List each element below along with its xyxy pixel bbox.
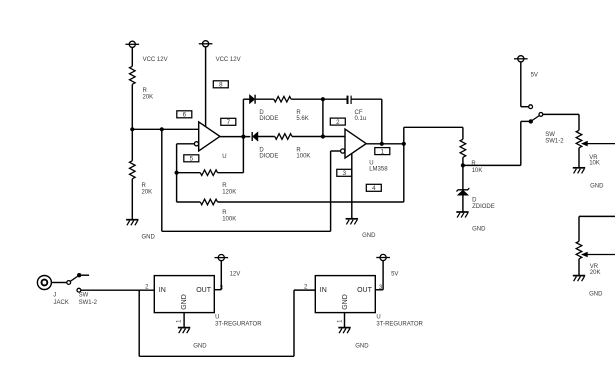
svg-text:D: D <box>472 198 477 204</box>
wire switch to regulator1 IN <box>81 289 155 291</box>
switch SW1-2 (jack) lever <box>70 276 77 281</box>
resistor R 20K (upper) <box>130 66 136 84</box>
resistor R 120K <box>200 170 217 176</box>
wire feedback node to R120K <box>177 172 201 174</box>
svg-text:U: U <box>369 161 373 167</box>
power 5V (switch) <box>518 56 524 62</box>
wire R10K to node <box>462 157 464 165</box>
svg-text:VCC 12V: VCC 12V <box>143 57 168 63</box>
pin 1 label box <box>375 148 390 155</box>
node op-amp1 output junction <box>241 135 245 139</box>
wire reg1 GND pin <box>183 313 185 328</box>
svg-text:R: R <box>471 161 476 167</box>
wire zener to ground <box>462 195 464 212</box>
svg-text:R: R <box>142 183 147 189</box>
svg-text:3: 3 <box>343 170 347 177</box>
resistor R 5.6K <box>274 96 291 102</box>
wire R120K to op-amp1 output <box>218 172 244 174</box>
ground (VR10K) <box>573 167 585 169</box>
svg-text:J: J <box>53 293 56 299</box>
svg-text:GND: GND <box>193 344 207 350</box>
svg-text:5.6K: 5.6K <box>296 116 308 122</box>
wire right edge to VR20K <box>579 215 615 217</box>
pin 6 label box <box>177 111 192 118</box>
svg-text:10K: 10K <box>472 168 483 174</box>
wire top node down to +input node <box>322 99 324 136</box>
wire bottom rail to op-amp2 -input riser <box>162 230 331 232</box>
wire reg2 GND pin <box>344 313 346 328</box>
ground (reg2) <box>338 327 350 329</box>
ground (VR20K) <box>573 275 585 277</box>
wire output node up to top branch <box>242 99 244 136</box>
node output branch junction <box>402 142 406 146</box>
wire top node to CF <box>323 98 347 100</box>
svg-text:U: U <box>222 154 226 160</box>
wire divider to op-amp1 +input <box>132 128 198 130</box>
svg-text:IN: IN <box>159 287 166 294</box>
svg-text:3T-REGURATOR: 3T-REGURATOR <box>376 322 423 328</box>
power VCC 12V (left) <box>129 41 135 47</box>
svg-text:R: R <box>222 183 227 189</box>
svg-text:120K: 120K <box>222 189 236 195</box>
zener diode D ZDIODE <box>457 188 470 191</box>
wire op-amp1 -input to feedback node <box>177 143 195 145</box>
variable resistor VR 20K <box>576 241 582 258</box>
svg-text:SW1-2: SW1-2 <box>545 139 564 145</box>
svg-text:5V: 5V <box>531 73 538 79</box>
svg-text:SW1-2: SW1-2 <box>79 300 98 306</box>
svg-text:GND: GND <box>589 291 603 297</box>
capacitor CF 0.1u <box>347 96 349 104</box>
ground (below R20K) <box>126 219 138 221</box>
wire VCC divider vertical <box>131 84 133 129</box>
regulator U 3T-REGURATOR (5V) body <box>315 276 375 313</box>
node feedback junction <box>175 171 179 175</box>
power VCC 12V (op-amp1 V+) <box>203 41 209 47</box>
svg-text:6: 6 <box>183 112 187 119</box>
svg-text:5: 5 <box>190 156 194 163</box>
svg-text:DIODE: DIODE <box>259 116 278 122</box>
svg-text:2: 2 <box>336 119 340 126</box>
wire rail up to regulator2 IN <box>293 290 295 356</box>
svg-text:7: 7 <box>227 119 231 126</box>
wire +input node down to bottom rail <box>161 129 163 231</box>
wire switch to VR10K <box>543 113 579 115</box>
wire R100K to op-amp2 output node <box>218 201 404 203</box>
ground (op-amp2 V-) <box>346 218 358 220</box>
svg-text:OUT: OUT <box>357 287 373 294</box>
svg-text:20K: 20K <box>142 190 153 196</box>
switch SW1-2 (jack) pole stub <box>81 274 89 276</box>
wire branch down to bottom rail <box>138 290 140 356</box>
connector J JACK <box>37 276 51 290</box>
pin 5 label box <box>184 155 199 162</box>
svg-text:GND: GND <box>181 294 188 310</box>
wire op-amp2 output <box>366 143 404 145</box>
variable resistor VR 10K <box>576 130 582 148</box>
pin 8 label box <box>213 81 228 88</box>
power 5V (reg2) <box>380 254 386 260</box>
node R10K junction <box>461 163 465 167</box>
wire to R100K feedback <box>177 201 201 203</box>
svg-text:R: R <box>222 210 227 216</box>
svg-text:12V: 12V <box>230 271 241 277</box>
svg-text:1: 1 <box>381 148 385 155</box>
node op-amp1 +input junction <box>160 127 164 131</box>
svg-text:GND: GND <box>355 344 369 350</box>
wire reg1 OUT to 12V <box>214 289 221 291</box>
op-amp U1b LM358 triangle <box>345 129 366 158</box>
wire R10K node to switch <box>463 164 521 166</box>
pin 2 label box <box>330 118 345 125</box>
op-amp U1b inverting bubble <box>341 149 345 153</box>
svg-text:LM358: LM358 <box>369 167 388 173</box>
svg-text:GND: GND <box>142 235 156 241</box>
switch SW1-2 (jack) contact b <box>77 288 81 292</box>
wire bottom diode to R100K <box>258 136 275 138</box>
svg-text:4: 4 <box>372 185 376 192</box>
VR10K wiper arrow <box>587 143 615 145</box>
svg-text:GND: GND <box>590 184 604 190</box>
pin 4 label box <box>366 184 381 191</box>
wire VR20K to ground <box>578 259 580 276</box>
op-amp U1a inverting bubble <box>194 142 198 146</box>
pin 7 label box <box>221 118 236 125</box>
svg-text:OUT: OUT <box>196 287 212 294</box>
resistor R 100K (bottom branch) <box>275 134 292 140</box>
switch SW1-2 (jack) contact a <box>67 281 71 285</box>
switch SW1-2 lever <box>531 116 539 122</box>
wire reg2 OUT to 5V <box>375 289 383 291</box>
ground (reg1) <box>178 327 190 329</box>
svg-text:8: 8 <box>219 82 223 89</box>
switch SW1-2 pole <box>529 119 533 123</box>
svg-text:10K: 10K <box>589 161 600 167</box>
wire pole to riser <box>521 120 530 122</box>
wire divider to lower R <box>131 129 133 161</box>
svg-text:20K: 20K <box>143 95 154 101</box>
svg-text:0.1u: 0.1u <box>355 116 367 122</box>
svg-text:U: U <box>215 315 219 321</box>
wire jack to switch <box>51 282 67 284</box>
svg-text:5V: 5V <box>391 272 398 278</box>
op-amp U1a triangle <box>199 122 220 151</box>
diode D DIODE (bottom, cathode left) <box>251 132 253 141</box>
svg-text:100K: 100K <box>296 154 310 160</box>
svg-text:CF: CF <box>355 110 363 116</box>
switch SW1-2 contact b <box>539 113 543 117</box>
svg-text:R: R <box>143 88 148 94</box>
diode D DIODE (top, anode left) <box>250 95 255 103</box>
svg-text:JACK: JACK <box>54 300 69 306</box>
svg-text:DIODE: DIODE <box>259 154 278 160</box>
power 12V (reg1) <box>218 254 224 260</box>
switch SW1-2 contact a <box>529 105 533 109</box>
node CF output junction <box>380 142 384 146</box>
wire bottom rail <box>139 355 294 357</box>
VR20K wiper arrow <box>587 254 615 256</box>
wire into op-amp2 -input bubble <box>331 150 341 152</box>
wire riser up to op-amp2 -input <box>330 151 332 231</box>
svg-text:GND: GND <box>472 227 486 233</box>
wire op-amp1 output <box>220 136 250 138</box>
wire zener feed <box>462 165 464 189</box>
svg-text:ZDIODE: ZDIODE <box>472 204 495 210</box>
svg-text:20K: 20K <box>590 270 601 276</box>
resistor R 10K <box>460 139 466 157</box>
switch SW1-2 (jack) pole <box>77 273 81 277</box>
svg-text:100K: 100K <box>222 216 236 222</box>
svg-text:SW: SW <box>79 293 89 299</box>
pin 3 label box <box>337 169 352 176</box>
svg-text:IN: IN <box>320 287 327 294</box>
wire CF to op-amp2 output <box>351 98 382 100</box>
node top branch junction <box>321 97 325 101</box>
wire lower R to ground <box>131 179 133 220</box>
wire VR10K to ground <box>578 148 580 168</box>
regulator U 3T-REGURATOR (12V) body <box>154 276 214 313</box>
wire feedback node down <box>176 173 178 202</box>
node op-amp2 +input junction <box>321 134 325 138</box>
node divider junction <box>130 127 134 131</box>
svg-text:SW: SW <box>545 132 555 138</box>
svg-text:3T-REGURATOR: 3T-REGURATOR <box>215 322 262 328</box>
svg-text:U: U <box>376 315 380 321</box>
wire 5V to switch contact <box>521 106 529 108</box>
ground (zener) <box>456 211 468 213</box>
wire R5.6K to top node <box>291 98 323 100</box>
svg-text:VCC 12V: VCC 12V <box>216 57 241 63</box>
wire R100K to op-amp2 +input <box>292 136 345 138</box>
svg-text:GND: GND <box>342 294 349 310</box>
wire output up to R10K <box>403 127 405 144</box>
resistor R 20K (lower) <box>130 161 136 179</box>
svg-text:GND: GND <box>362 233 376 239</box>
wire op-amp2 V- to ground <box>351 154 353 219</box>
wire top diode to R5.6K <box>256 98 274 100</box>
resistor R 100K (feedback) <box>200 199 217 205</box>
